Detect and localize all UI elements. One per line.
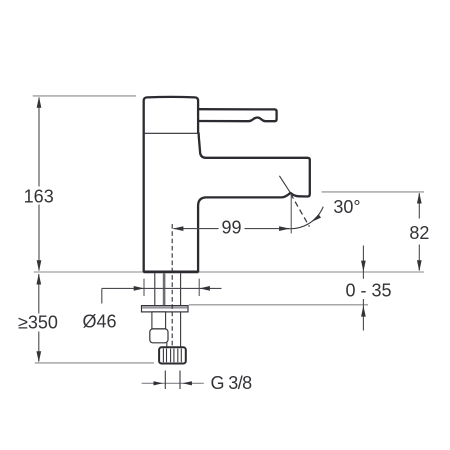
dim 82 vertical line xyxy=(418,193,420,270)
extension line top (163 reference at faucet top) xyxy=(33,95,136,97)
dim D46 lines xyxy=(102,288,222,303)
cartridge seam line xyxy=(144,132,198,134)
30 degree arc xyxy=(286,207,324,229)
supply pipe right upper xyxy=(180,273,182,305)
30 degree dashed axis xyxy=(291,195,309,227)
faucet base line xyxy=(144,270,199,273)
mounting flange xyxy=(142,306,189,312)
svg-text:163: 163 xyxy=(24,186,54,206)
dim 163 vertical line xyxy=(38,98,40,271)
arrow G3/8 right-pointing xyxy=(154,381,163,385)
supply hose thick gray xyxy=(163,273,166,305)
shank rectangle xyxy=(152,312,166,329)
outlet vertical extension (99 right ref) xyxy=(290,195,292,234)
svg-text:G 3/8: G 3/8 xyxy=(211,373,253,393)
faucet body with spout xyxy=(144,133,310,272)
D46 extension ticks xyxy=(144,279,199,296)
arrow 163 down xyxy=(37,260,42,271)
30 degree solid diagonal xyxy=(279,176,290,193)
arrow 99 right-pointing xyxy=(279,226,290,231)
G3/8 extension ticks xyxy=(165,371,180,390)
arrow 99 left-pointing xyxy=(173,226,184,231)
arrow 82 down xyxy=(417,260,422,271)
cartridge housing xyxy=(144,97,198,133)
flange gray band xyxy=(142,307,187,309)
supply pipe left xyxy=(154,273,156,305)
82 top extension line (outlet level) xyxy=(322,191,425,193)
arrow D46 left-pointing xyxy=(199,286,210,291)
knurled nut G3/8 xyxy=(159,347,186,363)
arrow >=350 up xyxy=(36,274,41,285)
svg-text:99: 99 xyxy=(221,217,241,237)
counter bottom surface line (0-35) xyxy=(189,304,368,306)
svg-text:30°: 30° xyxy=(333,197,360,217)
arrow 82 up xyxy=(417,193,422,204)
svg-text:Ø46: Ø46 xyxy=(82,311,116,331)
arc arrowhead xyxy=(311,214,321,222)
dim 0-35 vertical lines xyxy=(362,246,364,331)
counter top surface line xyxy=(34,271,424,273)
arrow 163 up xyxy=(37,97,42,108)
>=350 bottom extension line xyxy=(35,362,154,364)
connector line block to nut xyxy=(166,343,168,347)
arrow G3/8 left-pointing xyxy=(183,381,192,385)
arrow 0-35 down xyxy=(361,261,366,272)
dim 99 line xyxy=(173,228,289,230)
svg-text:0 - 35: 0 - 35 xyxy=(345,280,391,300)
arrow D46 right-pointing xyxy=(134,286,145,291)
dim >=350 vertical line xyxy=(38,274,40,362)
valve block xyxy=(150,329,168,343)
supply pipe right lower xyxy=(180,312,182,347)
knurl lines xyxy=(163,349,181,363)
arrow 0-35 up xyxy=(361,306,366,317)
arrow >=350 down xyxy=(36,351,41,362)
faucet centerline (dashed) xyxy=(171,224,173,347)
svg-text:82: 82 xyxy=(409,223,429,243)
svg-text:≥350: ≥350 xyxy=(18,313,58,333)
lever handle xyxy=(198,109,277,121)
dim G3/8 line xyxy=(142,382,204,384)
